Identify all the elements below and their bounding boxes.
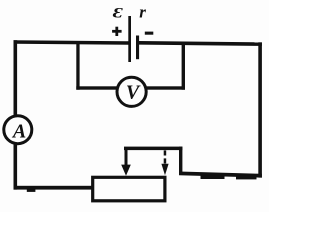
- scan bump on bottom-right wire (left): [201, 175, 225, 179]
- wire voltmeter left drop: [76, 43, 79, 90]
- wire top-left horizontal (left side to battery +): [14, 40, 129, 45]
- rheostat R1 body: [93, 177, 165, 201]
- wire right vertical: [258, 42, 262, 177]
- ammeter A1: [4, 116, 32, 144]
- wire left vertical (through ammeter): [14, 40, 18, 189]
- voltmeter V1: [117, 77, 146, 106]
- wire slider bus horizontal: [124, 147, 182, 151]
- svg-text:Ɛ: Ɛ: [113, 4, 124, 21]
- wire bottom-right horizontal: [179, 172, 262, 178]
- minus sign: [145, 32, 154, 35]
- wire voltmeter horizontal: [76, 86, 185, 89]
- battery positive plate (long): [128, 16, 131, 62]
- rheostat slider arm (solid arrow): [121, 147, 131, 176]
- wire top-right horizontal (battery - to right side): [139, 41, 262, 46]
- wire voltmeter right drop: [182, 43, 185, 90]
- rheostat alternate slider position (dashed arrow): [161, 150, 168, 175]
- scan bump on bottom-left wire: [27, 189, 36, 192]
- battery negative plate (short): [136, 36, 139, 60]
- svg-text:A: A: [11, 120, 26, 142]
- wire riser from bottom-right wire up to slider bus: [179, 147, 182, 175]
- scan bump on bottom-right wire (right): [236, 176, 257, 180]
- svg-text:r: r: [139, 2, 146, 21]
- svg-text:V: V: [126, 82, 141, 104]
- wire bottom-left horizontal: [14, 186, 94, 190]
- plus sign: [112, 30, 122, 33]
